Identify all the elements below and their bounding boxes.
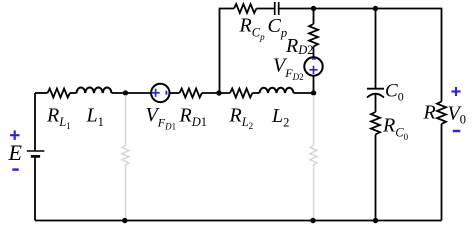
wire left vertical from mid rail to battery top	[34, 93, 36, 151]
battery E	[27, 151, 45, 156]
node A junction dot	[123, 90, 128, 95]
wire R_D2 to V_FD2	[313, 46, 315, 57]
resistor R_D1	[180, 89, 202, 98]
plus inside V_FD1 (blue)	[152, 89, 160, 97]
ghost resistor 2 (grey)	[310, 146, 317, 165]
minus tick inside V_FD1 (blue)	[165, 91, 167, 95]
resistor R_D2 (vertical)	[309, 24, 318, 46]
svg-text:R: R	[423, 102, 436, 124]
resistor R_C0 (vertical)	[371, 112, 380, 134]
resistor R_L1	[48, 89, 70, 98]
minus sign of V_0 (blue)	[453, 130, 461, 133]
wire R_C0 to bottom rail	[375, 134, 377, 220]
bottom junction dot 1	[122, 218, 127, 223]
node C junction dot	[311, 90, 316, 95]
bottom junction dot 3	[373, 218, 378, 223]
wire R_L2 to L_2	[252, 92, 259, 94]
minus sign of E (blue)	[12, 168, 18, 171]
top rail to right corner and down	[376, 9, 442, 102]
capacitor C_p	[275, 2, 279, 15]
wire node D down to R_D2	[313, 9, 315, 25]
wire R_Cp to C_p	[256, 8, 274, 10]
wire R to bottom right corner	[441, 124, 443, 221]
node B junction dot	[216, 90, 221, 95]
ghost branch 2 lower wire (grey)	[313, 165, 315, 221]
inductor L_2	[260, 88, 294, 93]
resistor R_Cp	[234, 4, 256, 13]
wire L_1 to node A	[112, 92, 152, 94]
wire battery bottom to bottom rail	[34, 157, 36, 221]
ghost branch 2 wire (grey)	[313, 95, 315, 146]
wire riser node B to top rail	[220, 9, 235, 94]
node D junction dot (top rail)	[311, 6, 316, 11]
source V_FD2	[304, 57, 322, 75]
wire node E down to C_0	[375, 9, 377, 89]
source V_FD1	[151, 84, 169, 102]
inductor L_1	[77, 87, 112, 93]
ghost branch 1 lower wire (grey)	[125, 165, 127, 221]
top rail to node E	[314, 8, 376, 10]
wire R_D1 to node B	[202, 92, 230, 94]
wire mid rail left segment	[35, 92, 48, 94]
bottom junction dot 2	[310, 218, 315, 223]
capacitor C_0 (curved plate)	[367, 89, 384, 98]
resistor R (vertical, right)	[437, 102, 446, 124]
wire L_2 to node C	[294, 92, 314, 94]
minus inside V_FD2 (blue)	[312, 58, 316, 60]
wire between R_L1 and L_1	[70, 92, 77, 94]
ghost resistor 1 (grey)	[122, 146, 129, 165]
node E junction dot (top rail)	[373, 6, 378, 11]
bottom rail	[35, 220, 442, 222]
wire V_FD2 to node C	[313, 76, 315, 93]
plus sign of V_0 (blue)	[452, 87, 461, 96]
plus sign of E (blue)	[10, 130, 20, 140]
wire C_0 to R_C0	[375, 94, 377, 112]
ghost branch 1 wire (grey)	[125, 95, 127, 146]
resistor R_L2	[230, 89, 252, 98]
plus inside V_FD2 (blue)	[309, 66, 317, 74]
wire C_p to node D	[279, 8, 314, 10]
wire V_FD1 to R_D1	[170, 92, 180, 94]
svg-text:E: E	[8, 140, 23, 165]
